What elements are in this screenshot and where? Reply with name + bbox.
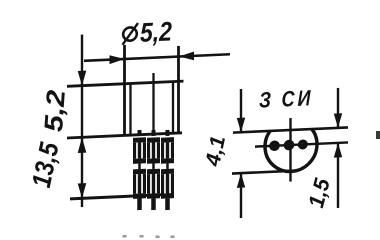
lead 2 (middle) (147, 130, 160, 211)
can inner wall right (172, 82, 174, 134)
svg-text:5,2: 5,2 (38, 89, 71, 132)
svg-text:И: И (298, 85, 312, 111)
svg-text:1,5: 1,5 (303, 176, 335, 210)
bottom view: flat-top line (233, 127, 348, 132)
svg-text:С: С (282, 86, 296, 112)
arrowhead down at flat line (1,5) (334, 113, 342, 128)
arrowhead up at center line (1,5) (334, 143, 342, 158)
lead 3 (right) (161, 130, 174, 211)
arrowhead down at can top (78, 71, 87, 86)
left extension line / can left wall (123, 45, 126, 135)
labels З С И (259, 85, 311, 112)
can bottom line (67, 133, 182, 138)
vertical dimension shaft (5,2 / 13,5 chain) (81, 35, 83, 208)
right extension line / can right wall (177, 46, 180, 133)
dimension 1,5 shaft upper (337, 88, 339, 128)
can top (brim) line (67, 81, 184, 86)
dimension 1,5 shaft lower (337, 143, 339, 208)
faint cut-off text marks at bottom edge (123, 235, 175, 238)
arrowhead up at can bottom (78, 137, 87, 153)
svg-text:13,5: 13,5 (26, 140, 65, 190)
arrowhead down at lead end line (78, 183, 87, 198)
svg-text:4,1: 4,1 (201, 134, 230, 168)
pin for И (right lead, ring) (300, 141, 306, 147)
label ø5,2 : diameter symbol (123, 23, 139, 45)
svg-text:5,2: 5,2 (140, 16, 172, 47)
can inner wall left (129, 83, 131, 135)
bottom view: horizontal center line (255, 142, 348, 146)
bottom view: vertical center line (289, 118, 291, 182)
arrowhead pointing left at right extension line (179, 51, 194, 60)
dimension 4,1 shaft upper (240, 89, 242, 132)
dimension line for diameter 5,2 (top horizontal) (84, 54, 230, 61)
arrowhead pointing right at left extension line (110, 55, 125, 64)
dimension 4,1 shaft lower (240, 173, 242, 218)
svg-text:З: З (259, 87, 271, 113)
bottom view: body circle clipped by flat (265, 129, 317, 173)
pin for З (left lead, ring) (271, 142, 278, 149)
pin for С (middle lead, solid) (284, 140, 295, 151)
lead end extension line (70, 194, 174, 199)
cut-off speck at right edge (376, 131, 380, 139)
bottom view: bottom tangent extension line (232, 171, 293, 174)
lead 1 (left) (133, 130, 146, 211)
arrowhead up at bottom tangent (4,1) (237, 173, 245, 188)
arrowhead down at flat line (4,1) (237, 118, 245, 133)
can center line (152, 73, 154, 134)
